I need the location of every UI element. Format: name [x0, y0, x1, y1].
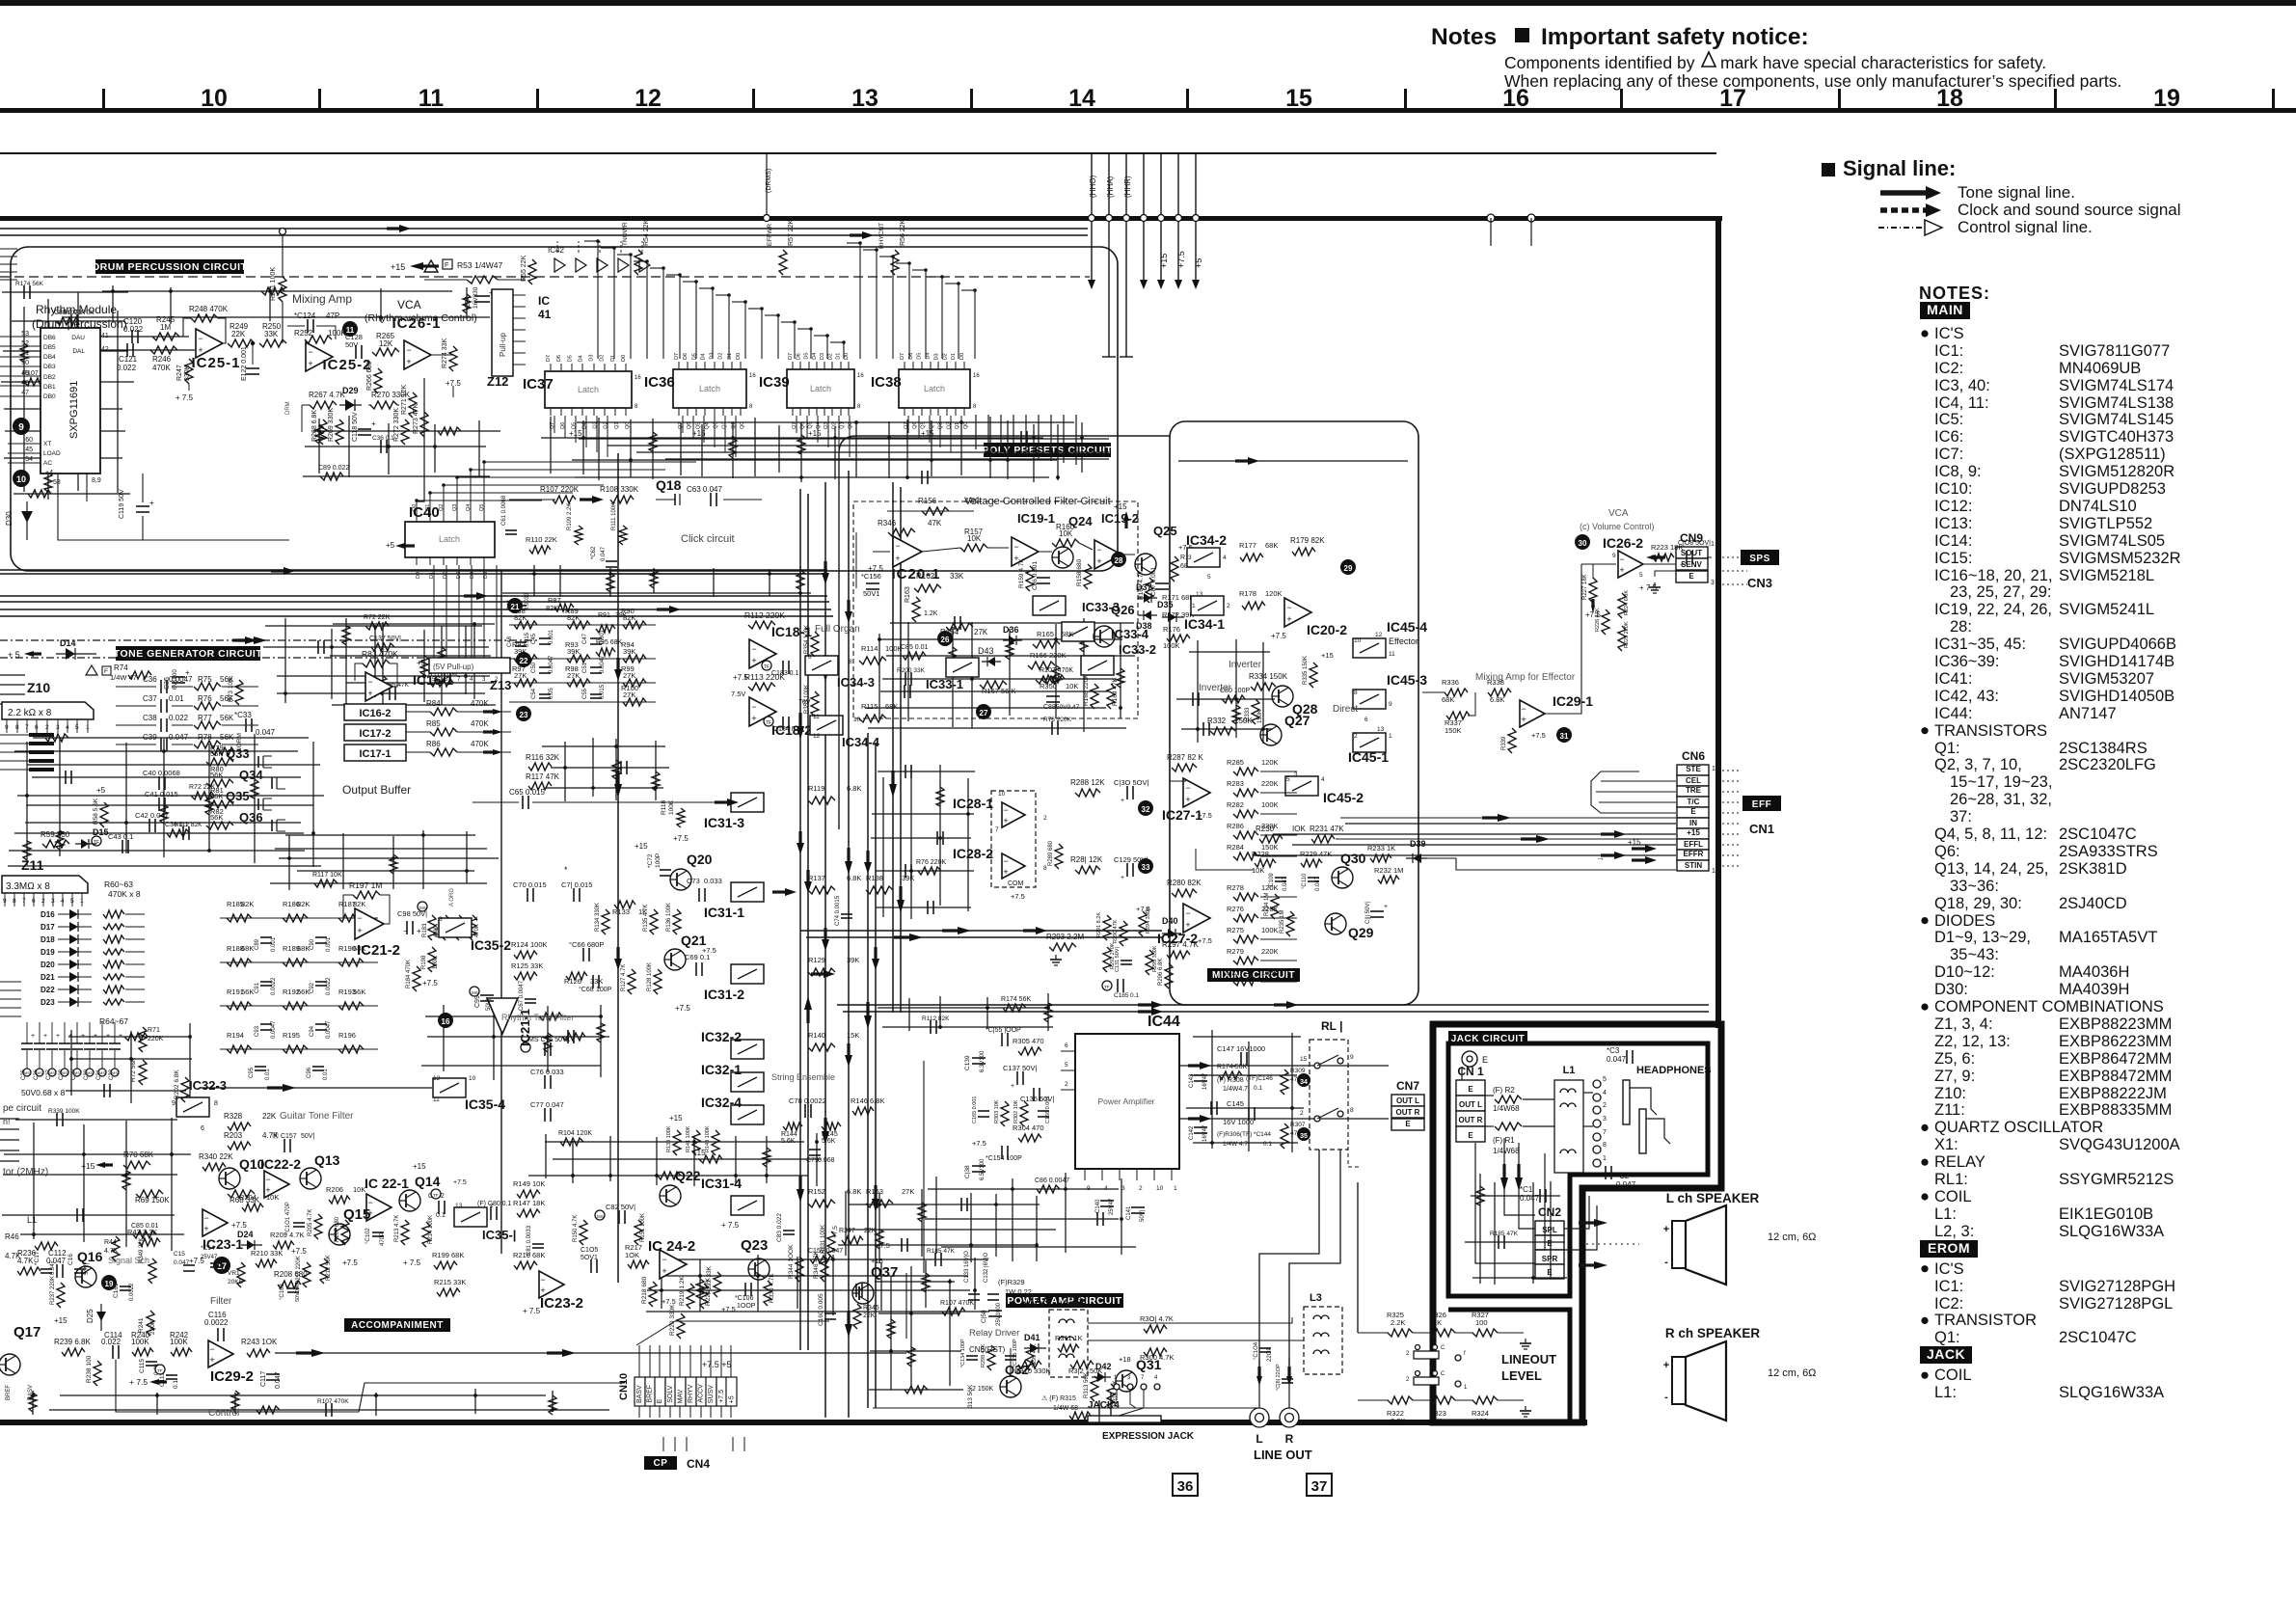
wire: [47, 299, 49, 500]
circled 27: [976, 704, 991, 719]
wire: [27, 764, 320, 766]
vertical trunk pair A: [824, 482, 826, 1418]
resistor: [20, 343, 28, 363]
resistor R287: [1172, 764, 1197, 771]
circled 26: [937, 631, 953, 646]
svg-text:EFF: EFF: [1752, 799, 1771, 810]
svg-text:2SC1384RS: 2SC1384RS: [2059, 740, 2147, 757]
svg-text:C16: C16: [68, 1254, 74, 1265]
svg-text:C184 0.1: C184 0.1: [773, 726, 801, 733]
svg-text:12 cm, 6Ω: 12 cm, 6Ω: [1768, 1232, 1816, 1243]
wire: [545, 1134, 547, 1178]
switch IC35-4: [433, 1078, 466, 1097]
resistor R250: [259, 339, 286, 347]
svg-text:2: 2: [1227, 603, 1230, 609]
svg-text:Q27: Q27: [1284, 713, 1310, 728]
resistor R346: [888, 528, 915, 536]
svg-text:Q1:: Q1:: [1934, 740, 1960, 757]
svg-text:R241: R241: [138, 1317, 145, 1333]
circled 19: [101, 1275, 117, 1290]
op-amp IC21-1 vertical: [487, 998, 518, 1034]
svg-text:10K: 10K: [1066, 682, 1078, 690]
circled 31: [1556, 727, 1572, 743]
capacitor C119: [136, 505, 149, 507]
svg-text:Q17: Q17: [14, 1324, 41, 1340]
wire: [425, 1015, 603, 1017]
cap C101: [293, 1222, 305, 1224]
svg-text:26: 26: [941, 636, 950, 644]
svg-text:11: 11: [1389, 651, 1395, 658]
CN6 dotted leads: [1722, 770, 1742, 771]
resistor R70: [123, 1161, 150, 1169]
svg-text:T/C: T/C: [1688, 798, 1700, 806]
circled 33: [1138, 858, 1153, 874]
CN9 dotted leads: [1722, 556, 1747, 558]
op-amp IC25-1: [196, 329, 223, 358]
svg-text:IC13:: IC13:: [1934, 515, 1972, 532]
resistor R116: [528, 763, 552, 771]
svg-text:SLQG16W33A: SLQG16W33A: [2059, 1384, 2164, 1401]
svg-text:TF: TF: [764, 664, 770, 670]
resistor R330: [764, 1281, 771, 1306]
resistor: [24, 378, 47, 386]
svg-text:2SA933STRS: 2SA933STRS: [2059, 843, 2158, 860]
svg-text:°C|8| 22OP: °C|8| 22OP: [1276, 1364, 1282, 1391]
svg-text:IC45-2: IC45-2: [1323, 790, 1364, 805]
vertical trunk pair E: [799, 489, 801, 1350]
resistor R289: [1055, 844, 1063, 869]
svg-text:D0: D0: [416, 572, 421, 579]
svg-text:IC8, 9:: IC8, 9:: [1934, 463, 1982, 480]
svg-text:Q0: Q0: [848, 422, 853, 429]
svg-text:R86: R86: [426, 740, 441, 748]
transistor Q30: [1332, 867, 1353, 888]
diode D29: [339, 404, 362, 406]
expression jack: [1098, 1400, 1100, 1416]
svg-text:D3: D3: [933, 353, 939, 360]
pullup resistor R54: [635, 250, 642, 275]
svg-text:Ⓜ C157: Ⓜ C157: [272, 1132, 297, 1140]
wire effect loop: [1178, 460, 1408, 462]
svg-text:Q1:: Q1:: [1934, 1329, 1960, 1346]
svg-text:R108 330K: R108 330K: [600, 485, 639, 494]
svg-text:SLQG16W33A: SLQG16W33A: [2059, 1223, 2164, 1240]
switch IC32-1: [731, 1072, 764, 1092]
svg-text:56K: 56K: [210, 792, 223, 800]
svg-text:D2: D2: [942, 353, 948, 360]
svg-text:53: 53: [21, 331, 29, 338]
svg-text:String Ensemble: String Ensemble: [771, 1072, 835, 1082]
diode D36: [1003, 639, 1022, 641]
resistor R353: [811, 691, 819, 717]
svg-text:R252: R252: [294, 329, 313, 338]
resistor: [365, 622, 389, 630]
wire: [1197, 640, 1199, 743]
svg-text:DB0: DB0: [43, 393, 56, 400]
svg-text:41: 41: [538, 308, 552, 321]
capacitor: [182, 826, 184, 840]
svg-text:R277: R277: [1227, 968, 1244, 977]
switch IC34-3: [805, 656, 838, 675]
svg-text:R231 47K: R231 47K: [1310, 825, 1344, 833]
svg-text:IC16~18, 20, 21,: IC16~18, 20, 21,: [1934, 567, 2052, 584]
svg-text:SSYGMR5212S: SSYGMR5212S: [2059, 1171, 2174, 1188]
svg-text:Q15: Q15: [343, 1206, 370, 1223]
cap C103: [287, 1287, 299, 1289]
svg-text:D16: D16: [41, 910, 55, 919]
svg-text:+: +: [1232, 1064, 1236, 1070]
svg-text:+: +: [417, 927, 421, 935]
svg-text:COM: COM: [1008, 880, 1024, 887]
svg-text:SOLV: SOLV: [667, 1385, 674, 1402]
fet Q35: [257, 798, 259, 810]
resistors R336 R338: [1445, 689, 1468, 696]
svg-text:33~36:: 33~36:: [1950, 878, 1999, 895]
switch IC31-2: [731, 964, 764, 984]
svg-text:R300 4.7K: R300 4.7K: [1140, 1353, 1174, 1362]
svg-text:R112 82K: R112 82K: [922, 1015, 950, 1022]
svg-text:2: 2: [1603, 1102, 1607, 1109]
svg-text:C94: C94: [310, 1025, 315, 1037]
svg-text:Q36: Q36: [239, 810, 263, 825]
wire: [925, 1218, 1119, 1220]
wire: [348, 416, 350, 477]
svg-text:DB1: DB1: [43, 384, 56, 391]
svg-text:33K: 33K: [590, 977, 603, 986]
wire: [125, 1121, 127, 1247]
top horizontal bus pair: [0, 228, 1088, 230]
svg-text:+: +: [31, 1033, 35, 1040]
wire: [69, 1058, 192, 1060]
svg-text:R283: R283: [1227, 779, 1244, 788]
svg-text:IC31-2: IC31-2: [704, 987, 744, 1002]
jack4 contacts: [1114, 1384, 1120, 1390]
svg-text:8: 8: [1350, 1107, 1354, 1114]
capacitor: [82, 344, 84, 358]
left edge stubs upper: [0, 248, 17, 250]
svg-text:F: F: [445, 262, 448, 269]
resistor R226: [1602, 609, 1609, 635]
resistor R176: [1167, 635, 1190, 642]
resistor: [949, 647, 957, 666]
wire: [846, 1229, 1056, 1231]
resistor R124: [514, 951, 537, 959]
resistor: [903, 652, 926, 660]
svg-text:C137 50V|: C137 50V|: [369, 636, 401, 642]
cap C79: [809, 1149, 821, 1150]
svg-text:+: +: [119, 1033, 122, 1040]
svg-text:9: 9: [1350, 1054, 1354, 1061]
svg-text:R248 470K: R248 470K: [189, 305, 229, 313]
svg-text:SVIGUPD4066B: SVIGUPD4066B: [2059, 636, 2176, 653]
svg-text:C88: C88: [1043, 704, 1056, 711]
resistor R331: [827, 1232, 835, 1257]
resistor: [607, 573, 614, 592]
svg-text:R58 5.6K: R58 5.6K: [93, 798, 99, 825]
resistor R150: [580, 1220, 587, 1245]
svg-text:SOUT: SOUT: [1681, 549, 1702, 557]
svg-text:11: 11: [433, 1096, 440, 1103]
wire DAU: [100, 336, 189, 338]
wire: [666, 1275, 968, 1277]
diode D30: [26, 501, 28, 540]
svg-text:12: 12: [433, 1075, 441, 1082]
svg-text:+: +: [94, 1033, 97, 1040]
svg-text:Q37: Q37: [871, 1264, 898, 1281]
L2 coil dashed: [1049, 1310, 1088, 1377]
svg-text:0.0047: 0.0047: [549, 655, 554, 673]
svg-text:R163: R163: [905, 586, 911, 603]
resistor R205: [314, 1214, 322, 1239]
svg-text:Pull-up: Pull-up: [499, 333, 507, 357]
svg-text:R206: R206: [326, 1185, 343, 1194]
transistor Q20: [670, 869, 691, 890]
svg-text:27K: 27K: [567, 671, 580, 680]
svg-text:22K: 22K: [863, 1313, 876, 1319]
wire: [4, 408, 122, 410]
wire: [392, 836, 394, 889]
svg-text:R144: R144: [781, 1131, 797, 1138]
switch IC31-3: [731, 793, 764, 812]
speaker signal arrows: [1594, 1219, 1607, 1227]
wire: [572, 1141, 574, 1183]
svg-text:IC32-1: IC32-1: [701, 1062, 742, 1077]
clock signal line sample: [1880, 207, 1929, 213]
svg-text:8: 8: [1603, 1142, 1607, 1149]
svg-text:IC22-2: IC22-2: [260, 1156, 301, 1172]
svg-text:Inverter: Inverter: [1229, 660, 1262, 670]
wire: [693, 1136, 695, 1186]
svg-text:10: 10: [1156, 1185, 1164, 1192]
svg-text:D7: D7: [674, 353, 680, 360]
svg-text:15K: 15K: [847, 1031, 859, 1040]
svg-text:+: +: [367, 689, 372, 698]
svg-text:2: 2: [1065, 1081, 1068, 1088]
svg-text:−: −: [751, 702, 756, 712]
cap C136: [1033, 1088, 1035, 1101]
svg-text:100K: 100K: [1261, 800, 1279, 809]
svg-text:−: −: [406, 345, 411, 355]
resistor: [261, 287, 284, 295]
svg-text:1: 1: [1192, 603, 1196, 609]
circled 21: [507, 598, 523, 613]
svg-text:D43: D43: [978, 646, 994, 656]
svg-text:*C124: *C124: [294, 311, 316, 320]
svg-text:LOAD: LOAD: [43, 450, 61, 457]
svg-text:C48: C48: [507, 636, 513, 647]
svg-text:IC35-2: IC35-2: [471, 937, 511, 953]
svg-text:D2: D2: [718, 353, 724, 360]
wire: [125, 743, 127, 853]
cap C130: [1126, 786, 1128, 799]
svg-text:C132 |6V|O: C132 |6V|O: [984, 1253, 989, 1283]
resistor: [257, 1406, 280, 1414]
wire: [382, 622, 384, 712]
svg-text:3: 3: [1603, 1116, 1607, 1123]
capacitor: [389, 687, 391, 700]
svg-text:R335 150K: R335 150K: [1303, 656, 1309, 685]
ladder row 998: [227, 959, 252, 966]
resistor: [1041, 675, 1065, 683]
svg-text:Inverter: Inverter: [1199, 683, 1232, 693]
svg-text:IC3, 40:: IC3, 40:: [1934, 377, 1990, 394]
wire: [735, 1136, 737, 1183]
svg-text:12K: 12K: [379, 339, 393, 348]
svg-text:R209 4.7K: R209 4.7K: [270, 1231, 304, 1239]
wire: [952, 627, 954, 727]
svg-text:C85 0.01: C85 0.01: [901, 644, 929, 651]
svg-text:IC27-1: IC27-1: [1162, 807, 1202, 823]
svg-text:IC17-1: IC17-1: [359, 748, 391, 760]
caps C109 C110: [1275, 877, 1286, 879]
resistor: [1117, 668, 1124, 688]
resistor: [342, 626, 350, 645]
top page edge bar: [0, 0, 2296, 6]
resistor: [918, 867, 941, 875]
svg-text:R76: R76: [198, 694, 212, 703]
svg-text:4: 4: [1603, 1090, 1607, 1096]
op-amp IC28-2: [1002, 853, 1025, 879]
svg-text:13: 13: [455, 1203, 463, 1209]
resistor: [314, 880, 338, 887]
svg-text:11: 11: [813, 714, 820, 720]
svg-text:C147 16V1000: C147 16V1000: [1217, 1044, 1265, 1053]
resistor: [810, 1256, 833, 1263]
svg-text:Q3: Q3: [593, 421, 599, 428]
capacitor C33: [245, 718, 247, 732]
svg-text:EXBP88223MM: EXBP88223MM: [2059, 1015, 2172, 1033]
power amp bottom wires: [905, 1273, 907, 1339]
wire: [876, 870, 974, 872]
cap C73: [698, 888, 700, 902]
svg-text:−: −: [1013, 542, 1018, 552]
wire: [1479, 1174, 1481, 1284]
svg-text:+5: +5: [728, 1395, 735, 1403]
capacitor: [69, 402, 71, 416]
svg-text:SVIGUPD8253: SVIGUPD8253: [2059, 480, 2166, 498]
svg-text:D0: D0: [959, 353, 965, 360]
op-amp IC25-2: [306, 342, 333, 371]
svg-text:(F)R306(TF) *C144: (F)R306(TF) *C144: [1217, 1131, 1271, 1138]
svg-text:C1O5: C1O5: [581, 1247, 598, 1254]
wire: [285, 834, 475, 836]
svg-text:0.001: 0.001: [549, 629, 554, 644]
svg-text:°C109: °C109: [1269, 873, 1275, 889]
svg-text:31: 31: [1560, 732, 1569, 741]
svg-text:R135 4.7K: R135 4.7K: [643, 905, 649, 932]
svg-text:Clock and sound source signal: Clock and sound source signal: [1958, 201, 2181, 219]
svg-text:D1: D1: [951, 353, 957, 360]
wire: [974, 1258, 976, 1310]
switch IC31-1: [731, 882, 764, 902]
resistor R305: [1018, 1047, 1041, 1055]
resistor R83 feedback: [363, 660, 390, 667]
svg-text:R147 18K: R147 18K: [513, 1199, 545, 1207]
svg-text:23, 25, 27, 29:: 23, 25, 27, 29:: [1950, 583, 2052, 601]
cap C81: [532, 1243, 544, 1245]
svg-text:BREF: BREF: [647, 1385, 654, 1403]
svg-text:IN: IN: [1689, 819, 1697, 827]
wire: [441, 626, 443, 705]
svg-text:13: 13: [1196, 591, 1203, 598]
svg-text:+15: +15: [808, 429, 822, 438]
svg-text:R: R: [1285, 1432, 1294, 1446]
svg-text:D24: D24: [237, 1230, 254, 1239]
wire: [970, 1193, 972, 1262]
svg-text:29: 29: [1344, 564, 1353, 573]
svg-text:R149 10K: R149 10K: [513, 1179, 545, 1188]
svg-text:82K: 82K: [297, 900, 310, 908]
svg-text:10: 10: [1712, 766, 1719, 772]
svg-text:*C33: *C33: [234, 711, 252, 719]
svg-text:22OP: 22OP: [1267, 1347, 1273, 1362]
svg-text:−: −: [751, 644, 756, 654]
capacitor: [325, 1403, 327, 1417]
bus arrows: [284, 567, 295, 575]
svg-text:3: 3: [439, 916, 443, 923]
svg-text:1: 1: [1389, 733, 1392, 740]
wire: [655, 741, 657, 800]
resistor R337: [1446, 712, 1470, 719]
svg-text:HEADPHONES: HEADPHONES: [1636, 1065, 1712, 1076]
wire: [609, 568, 611, 597]
svg-text:COIL: COIL: [1934, 1367, 1972, 1384]
resistor R233: [1370, 854, 1391, 862]
svg-text:°C103: °C103: [280, 1284, 285, 1300]
signal line legend title: [1822, 163, 1835, 176]
svg-text:R174 56K: R174 56K: [15, 281, 44, 287]
resistor: [379, 676, 387, 695]
svg-text:39K: 39K: [567, 647, 580, 656]
svg-text:28:: 28:: [1950, 618, 1972, 636]
resistor: [167, 829, 190, 837]
svg-text:6.8K: 6.8K: [847, 784, 861, 793]
effect loop inner line: [839, 436, 1170, 829]
resistor: [315, 424, 323, 444]
svg-text:X1:: X1:: [1934, 1136, 1958, 1153]
resistor R311: [1058, 1344, 1079, 1352]
svg-text:Q26: Q26: [1111, 603, 1135, 617]
effect loop rounded border: [1170, 421, 1418, 1005]
arrow marks nearCN6: [1645, 845, 1657, 853]
op-amp IC23-2: [539, 1271, 564, 1298]
svg-text:C50: C50: [531, 662, 537, 673]
caps C165 C166 R303 R302: [978, 1110, 989, 1112]
svg-text:R146 6.8K: R146 6.8K: [851, 1096, 884, 1105]
svg-text:IC 24-2: IC 24-2: [648, 1238, 695, 1255]
wire: [552, 1391, 554, 1412]
svg-text:R274 33K: R274 33K: [442, 338, 448, 368]
svg-text:−: −: [1003, 805, 1008, 815]
svg-text:R114: R114: [861, 644, 878, 653]
svg-text:R138: R138: [866, 874, 883, 882]
resistor: [942, 1308, 965, 1315]
wire: [551, 767, 669, 769]
resistor R167: [980, 681, 1007, 689]
svg-text:R350: R350: [1040, 682, 1057, 690]
svg-text:+15: +15: [81, 1161, 95, 1171]
wire: [1176, 698, 1275, 700]
svg-text:IOK: IOK: [1292, 825, 1306, 833]
svg-text:10: 10: [201, 85, 228, 112]
svg-text:Control: Control: [208, 1408, 239, 1419]
wire: [4, 1153, 191, 1155]
svg-text:C|O8 5OV|: C|O8 5OV|: [1678, 540, 1711, 547]
svg-text:Important safety notice:: Important safety notice:: [1541, 24, 1809, 50]
op-amp IC27-1: [1183, 778, 1210, 807]
fet Q34: [271, 777, 273, 789]
diode D15: [75, 843, 96, 845]
